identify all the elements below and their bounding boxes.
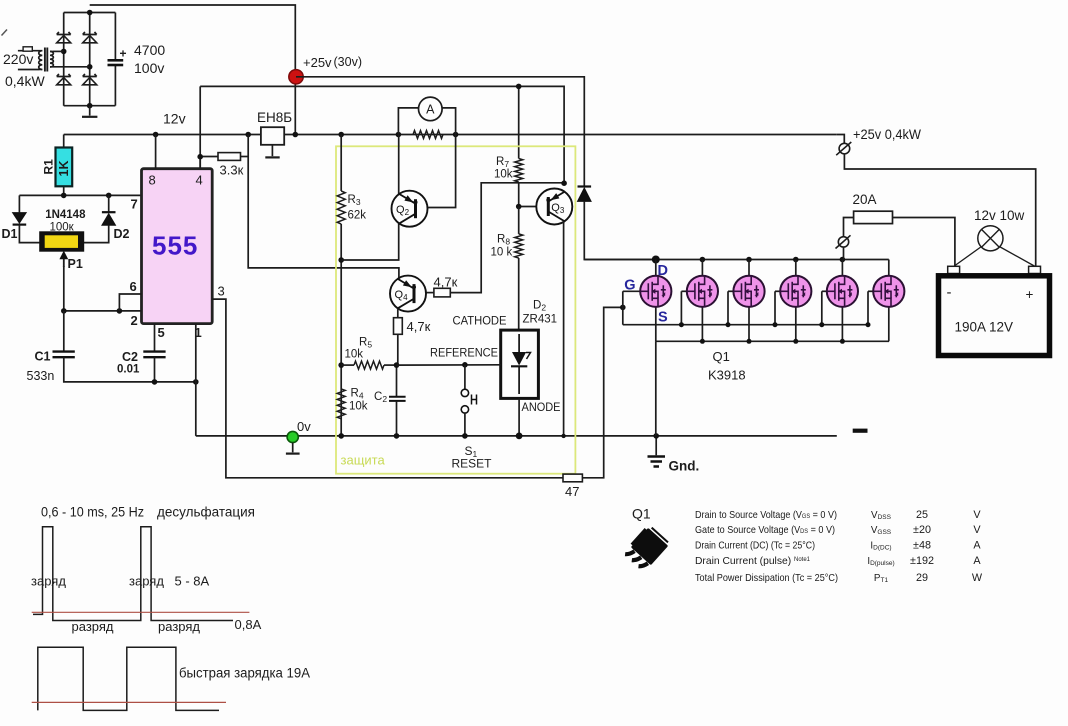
axis red line 2 <box>32 701 226 703</box>
capacitor C2 0.01 <box>154 324 156 351</box>
transistor Q1 MOSFET 1 <box>655 260 657 276</box>
svg-text:±48: ±48 <box>913 540 931 552</box>
wire gate bus <box>623 324 868 326</box>
wire pins 2+6 <box>64 310 142 312</box>
svg-text:V: V <box>973 524 981 536</box>
svg-text:1K: 1K <box>57 161 71 177</box>
waveform desulfation pulses <box>33 527 233 621</box>
transformer T1 windings and core <box>39 51 43 70</box>
lamp 12v 10w <box>978 226 1003 251</box>
wire reset net pin4 to Q3 collector <box>200 86 564 184</box>
wire R7 top column <box>518 86 520 158</box>
battery post plus <box>1029 266 1041 273</box>
wire bridge middle column <box>89 13 91 106</box>
battery minus dash <box>853 429 868 433</box>
svg-text:V: V <box>973 509 981 521</box>
wire 47 to gate bus <box>582 307 622 477</box>
node +25v red <box>289 70 303 84</box>
wire fuse right to battery minus post <box>893 218 955 267</box>
wire P1 wiper to pins 2/6 <box>63 266 65 311</box>
transistor Q1 MOSFET 4 <box>795 260 797 276</box>
waveform fast charge <box>38 647 219 710</box>
svg-text:Total Power Dissipation (Tc =: Total Power Dissipation (Tc = 25°C) <box>695 573 838 584</box>
wire pin1 column to 0v <box>195 324 197 436</box>
transistor Q3 <box>519 206 537 208</box>
svg-text:6: 6 <box>130 279 137 294</box>
svg-text:47: 47 <box>565 484 579 499</box>
wire transformer secondary to bridge <box>53 50 64 52</box>
resistor 47 <box>563 474 582 482</box>
svg-text:Gate to Source Voltage (VDS =: Gate to Source Voltage (VDS = 0 V) <box>695 525 835 536</box>
svg-text:+25v: +25v <box>303 55 332 70</box>
transistor Q1 MOSFET 2 <box>701 260 703 276</box>
corner mark <box>2 30 8 36</box>
resistor shunt on rail <box>413 131 443 139</box>
svg-text:0v: 0v <box>297 419 311 434</box>
protection box zashchita <box>336 146 575 473</box>
svg-text:+25v 0,4kW: +25v 0,4kW <box>853 127 921 142</box>
svg-text:±192: ±192 <box>910 555 934 567</box>
resistor R7 10k <box>515 159 523 183</box>
svg-text:100v: 100v <box>134 60 164 76</box>
svg-text:A: A <box>973 540 981 552</box>
svg-text:+: + <box>120 47 127 61</box>
wire Q4 base resistor to R7 bottom net <box>450 183 564 293</box>
svg-text:5: 5 <box>158 325 165 340</box>
svg-text:(30v): (30v) <box>334 55 362 69</box>
resistor R1 1K <box>63 135 65 149</box>
svg-text:2: 2 <box>131 313 138 328</box>
svg-text:0,4kW: 0,4kW <box>5 73 45 89</box>
svg-text:3: 3 <box>218 284 225 299</box>
capacitor C2 protection <box>396 365 398 396</box>
svg-text:29: 29 <box>916 572 928 584</box>
wire pin4 column <box>199 157 201 169</box>
svg-text:533n: 533n <box>27 369 55 383</box>
svg-text:10 k: 10 k <box>491 247 513 259</box>
capacitor C1 533n <box>63 311 65 351</box>
svg-text:10k: 10k <box>349 401 368 413</box>
svg-text:25: 25 <box>916 509 928 521</box>
connector output +25v <box>837 135 845 144</box>
svg-text:K3918: K3918 <box>708 368 746 383</box>
svg-text:62k: 62k <box>348 210 367 222</box>
diode bridge D-lower-right <box>83 74 97 77</box>
svg-text:4700: 4700 <box>134 42 165 58</box>
ground below bridge <box>89 106 91 116</box>
wiper arrow P1 <box>63 255 65 267</box>
resistor 3.3к <box>200 156 218 158</box>
svg-text:P1: P1 <box>68 257 83 271</box>
ground below EH8B <box>271 145 273 156</box>
svg-text:защита: защита <box>341 453 386 468</box>
resistor R8 10k <box>518 207 520 234</box>
svg-text:A: A <box>426 103 435 117</box>
resistor R5 10k <box>341 364 354 366</box>
wire fuse left to connector to drain bus <box>844 218 854 237</box>
wire pin3 output <box>212 299 563 478</box>
svg-text:заряд: заряд <box>129 573 164 588</box>
svg-text:G: G <box>624 278 635 294</box>
shunt regulator D2 ZR431 <box>501 330 539 398</box>
svg-text:Drain to Source Voltage (VGS =: Drain to Source Voltage (VGS = 0 V) <box>695 510 837 521</box>
svg-text:ANODE: ANODE <box>522 402 561 414</box>
svg-text:Drain Current (pulse) Note1: Drain Current (pulse) Note1 <box>695 556 811 567</box>
wire 0v rail <box>196 435 837 437</box>
wire pin8 to rail <box>155 135 157 169</box>
svg-text:555: 555 <box>152 231 198 261</box>
wire source bus <box>656 340 889 342</box>
svg-text:Drain Current (DC) (Tc = 25°C): Drain Current (DC) (Tc = 25°C) <box>695 541 815 552</box>
svg-text:A: A <box>973 555 981 567</box>
transformer T1 primary lead with plug <box>18 50 40 52</box>
wire source bus to 0v ground <box>655 341 657 436</box>
switch S1 RESET <box>464 365 466 389</box>
wire bridge top rail <box>64 12 116 14</box>
transistor Q1 MOSFET 6 <box>888 260 890 276</box>
potentiometer P1 <box>40 232 84 251</box>
wire 3.3k pullup column to Q4 collector <box>248 135 399 280</box>
svg-text:1N4148: 1N4148 <box>45 209 86 221</box>
svg-text:D2: D2 <box>114 227 130 241</box>
ground Gnd <box>655 436 657 455</box>
svg-text:R1: R1 <box>42 159 56 175</box>
svg-text:быстрая зарядка 19А: быстрая зарядка 19А <box>179 666 310 681</box>
wire ZR431 anode to 0v <box>518 398 520 436</box>
svg-text:12v 10w: 12v 10w <box>974 208 1025 223</box>
diode bridge D-upper-right <box>83 32 97 35</box>
wire +25v to flyback diode column <box>296 77 584 186</box>
ground below 0v node <box>292 443 294 453</box>
svg-text:разряд: разряд <box>72 619 114 634</box>
resistor 4,7к horizontal <box>434 288 450 297</box>
battery 190A 12V <box>939 276 1050 356</box>
svg-text:ZR431: ZR431 <box>523 314 558 326</box>
regulator EH8B <box>261 127 284 145</box>
svg-text:7: 7 <box>131 197 138 212</box>
svg-text:D1: D1 <box>2 227 18 241</box>
op-amp U1 555 timer <box>142 169 213 324</box>
wire main 12v/25v rail <box>64 134 837 136</box>
svg-text:±20: ±20 <box>913 524 931 536</box>
wire bridge bottom rail <box>64 105 116 107</box>
svg-text:3.3к: 3.3к <box>220 163 244 178</box>
svg-text:Gnd.: Gnd. <box>669 459 700 474</box>
svg-text:REFERENCE: REFERENCE <box>430 348 498 360</box>
diode D2 1N4148 <box>108 195 110 211</box>
svg-text:4,7к: 4,7к <box>407 319 431 334</box>
svg-text:S: S <box>658 309 668 325</box>
diode bridge D-lower-left <box>57 74 71 77</box>
svg-text:10k: 10k <box>494 169 513 181</box>
svg-text:0.01: 0.01 <box>117 364 140 376</box>
ammeter A <box>398 108 418 135</box>
svg-text:220v: 220v <box>3 51 33 67</box>
wire lamp leads <box>954 247 981 267</box>
svg-text:190A 12V: 190A 12V <box>955 320 1014 335</box>
transistor Q2 <box>398 135 400 195</box>
wire bridge left column <box>63 13 65 106</box>
resistor R3 62k <box>340 135 342 192</box>
capacitor 4700/100v <box>114 13 116 60</box>
transistor Q1 package D2PAK <box>624 526 670 572</box>
svg-text:заряд: заряд <box>31 573 66 588</box>
svg-text:Q1: Q1 <box>632 506 651 522</box>
svg-text:0,6 - 10 ms, 25 Hz: 0,6 - 10 ms, 25 Hz <box>41 505 144 520</box>
svg-text:CATHODE: CATHODE <box>453 316 507 328</box>
wire pin7 net <box>19 194 141 196</box>
wire drain bus <box>584 259 889 261</box>
svg-text:ЕН8Б: ЕН8Б <box>257 110 292 125</box>
node 0v green <box>287 431 298 442</box>
svg-text:Q1: Q1 <box>713 349 730 364</box>
svg-text:разряд: разряд <box>158 619 200 634</box>
svg-text:C1: C1 <box>35 350 51 364</box>
diode bridge D-upper-left <box>57 32 71 35</box>
transistor Q4 <box>426 292 434 294</box>
svg-text:4,7к: 4,7к <box>434 275 458 290</box>
axis red line 1 <box>32 611 250 613</box>
resistor 4,7к vertical <box>397 309 399 318</box>
transistor Q1 MOSFET 5 <box>841 260 843 276</box>
wire bottom net pin1 <box>155 381 196 383</box>
wire connector to battery plus <box>844 154 1035 267</box>
wire top +25v from bridge to red node <box>90 5 296 135</box>
svg-text:20A: 20A <box>853 192 877 207</box>
svg-text:W: W <box>972 572 983 584</box>
svg-text:D: D <box>658 263 668 279</box>
svg-text:-: - <box>947 284 952 301</box>
svg-text:12v: 12v <box>163 111 186 127</box>
svg-text:0,8А: 0,8А <box>235 617 262 632</box>
svg-text:8: 8 <box>149 173 156 188</box>
resistor R4 10k <box>337 389 345 419</box>
fuse 20A <box>854 211 893 223</box>
svg-text:C2: C2 <box>122 350 138 364</box>
diode D1 1N4148 <box>18 195 20 212</box>
battery post minus <box>948 266 960 273</box>
svg-text:5 - 8A: 5 - 8A <box>175 574 210 589</box>
svg-text:RESET: RESET <box>452 457 493 471</box>
svg-text:десульфатация: десульфатация <box>157 505 255 520</box>
svg-text:+: + <box>1026 287 1034 302</box>
svg-text:4: 4 <box>196 173 203 188</box>
wire Q3 emitter to 0v <box>563 222 565 436</box>
wire reference net <box>397 364 501 366</box>
svg-text:10k: 10k <box>345 349 364 361</box>
diode flyback near Q3 <box>578 185 592 187</box>
transistor Q1 MOSFET 3 <box>748 260 750 276</box>
